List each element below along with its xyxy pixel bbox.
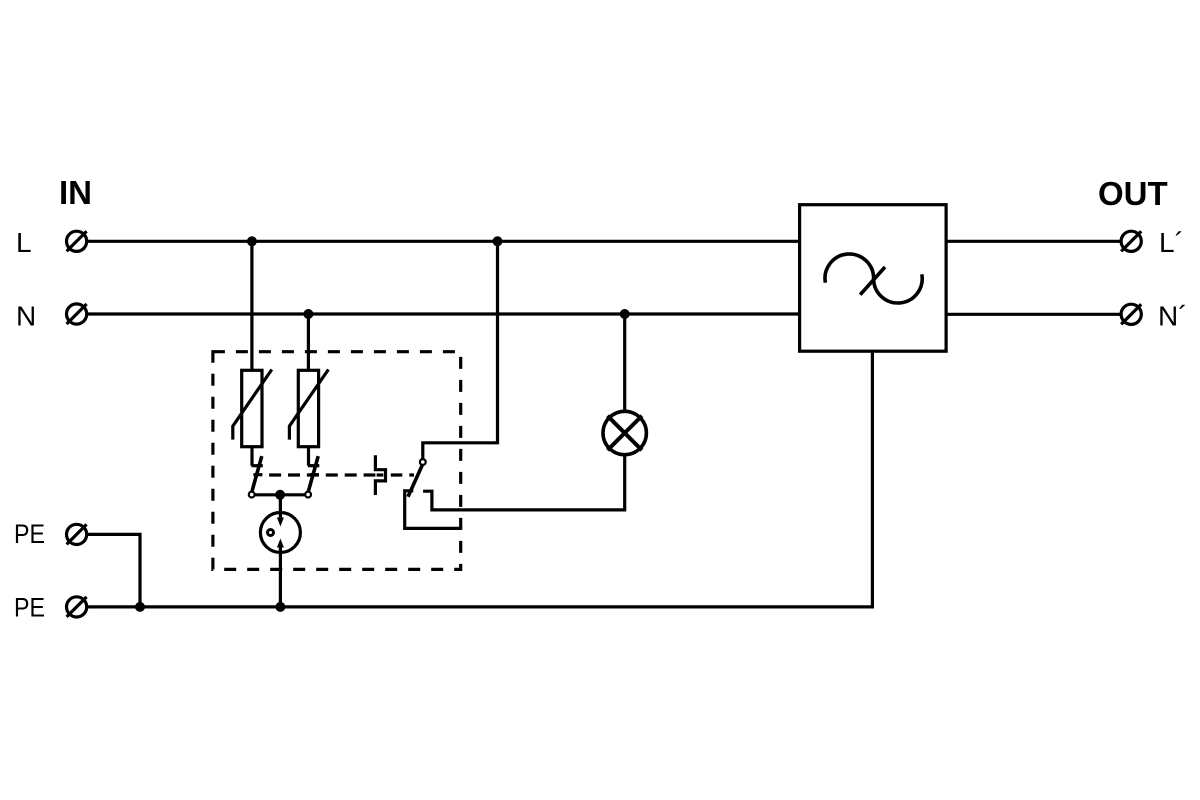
wire L drop to changeover switch [423, 241, 498, 458]
svg-text:L´: L´ [1159, 227, 1184, 258]
wire N drop to varistor 2 [307, 314, 310, 370]
wire N bus (left) [87, 312, 800, 315]
node N junction 1 [303, 309, 313, 319]
wire PE bus and riser to filter box [87, 351, 873, 607]
wire N drop to lamp [623, 314, 626, 411]
wire PE upper terminal to PE bus [87, 534, 140, 607]
node L junction 1 [247, 236, 257, 246]
varistor RV2 [289, 370, 328, 447]
changeover switch blade [408, 465, 422, 497]
svg-text:L: L [16, 227, 32, 258]
terminal L' (OUT) [1121, 231, 1141, 251]
svg-text:PE: PE [14, 519, 45, 549]
wire L bus (left) [87, 240, 800, 243]
mechanical coupling dashed line (right section) [391, 473, 414, 476]
wire L bus (right of box) [946, 240, 1121, 243]
wire switch lower contact to enclosure edge [405, 491, 461, 529]
terminal PE lower [67, 597, 87, 617]
terminal PE upper [67, 524, 87, 544]
node contact bar junction [275, 490, 285, 500]
filter box U1 [800, 205, 947, 352]
thermal disconnect switch 2 [305, 447, 319, 498]
mechanical coupling dashed line (left section) [269, 473, 375, 476]
terminal L (IN) [67, 231, 87, 251]
indicator drop wire (bottom) [279, 547, 282, 607]
node PE junction 2 [275, 602, 285, 612]
mechanical latch symbol [375, 455, 385, 495]
svg-text:N: N [16, 301, 36, 332]
varistor RV1 [233, 370, 272, 447]
node PE junction 1 [135, 602, 145, 612]
wire N bus (right of box) [946, 313, 1121, 316]
dashed enclosure [213, 352, 461, 570]
wire lamp to switch contact [423, 455, 625, 510]
status indicator [260, 513, 300, 553]
indicator drop wire (top) [279, 495, 282, 519]
terminal N (IN) [67, 304, 87, 324]
svg-text:OUT: OUT [1098, 175, 1168, 212]
node L junction 2 [493, 236, 503, 246]
terminal N' (OUT) [1121, 304, 1141, 324]
mechanical coupling dashed line (middle dash) [377, 473, 384, 476]
wire L drop to varistor 1 [250, 241, 253, 370]
thermal disconnect switch 1 [249, 447, 263, 498]
wire contact bar [255, 493, 305, 496]
svg-text:N´: N´ [1158, 301, 1188, 332]
svg-text:PE: PE [14, 593, 45, 623]
changeover switch top contact [420, 459, 426, 465]
svg-text:IN: IN [59, 174, 92, 211]
node N junction 2 [620, 309, 630, 319]
lamp H1 [603, 411, 646, 454]
